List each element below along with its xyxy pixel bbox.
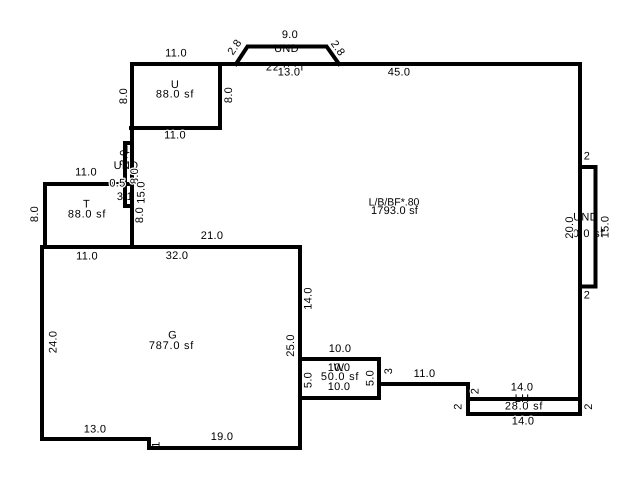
svg-text:24.0: 24.0 [48, 331, 60, 354]
svg-text:1: 1 [151, 441, 163, 447]
svg-text:2: 2 [583, 403, 595, 409]
svg-text:2: 2 [584, 290, 590, 302]
svg-text:8.0: 8.0 [29, 206, 41, 222]
main area outline L/B/BF*.80 with U room region [132, 64, 580, 399]
svg-text:21.0: 21.0 [201, 230, 224, 242]
svg-text:10.0: 10.0 [329, 343, 352, 355]
svg-text:88.0 sf: 88.0 sf [68, 209, 106, 221]
svg-text:9.0: 9.0 [282, 29, 298, 41]
svg-text:5.0: 5.0 [365, 370, 377, 386]
right UND rect 40sf [580, 167, 596, 287]
svg-text:13.0: 13.0 [278, 67, 301, 79]
svg-text:5.0: 5.0 [303, 372, 315, 388]
svg-text:11.0: 11.0 [76, 251, 98, 263]
narrow UND strip left of main wall [125, 143, 132, 206]
svg-text:13.0: 13.0 [84, 424, 107, 436]
svg-text:11.0: 11.0 [414, 368, 436, 380]
svg-text:11.0: 11.0 [165, 47, 187, 59]
svg-text:11.0: 11.0 [75, 167, 97, 179]
room W walls [300, 359, 379, 398]
svg-text:3.1: 3.1 [117, 191, 133, 203]
svg-text:14.0: 14.0 [303, 287, 315, 310]
room G outline [42, 247, 300, 448]
svg-text:8.0: 8.0 [134, 207, 146, 223]
svg-text:28.0 sf: 28.0 sf [505, 401, 543, 413]
svg-text:19.0: 19.0 [211, 431, 234, 443]
svg-text:14.0: 14.0 [512, 416, 535, 428]
svg-text:32.0: 32.0 [166, 250, 189, 262]
svg-text:11.0: 11.0 [164, 130, 186, 142]
svg-text:20.0: 20.0 [564, 216, 576, 239]
trapezoid UND porch top [236, 47, 339, 65]
svg-text:14.0: 14.0 [511, 382, 534, 394]
svg-text:88.0 sf: 88.0 sf [156, 89, 194, 101]
svg-text:15.0: 15.0 [136, 181, 148, 204]
svg-text:25.0: 25.0 [285, 334, 297, 357]
svg-text:1793.0 sf: 1793.0 sf [371, 205, 419, 217]
svg-text:2: 2 [584, 151, 590, 163]
bottom-right strip LH 28sf [468, 397, 580, 414]
svg-text:10.0: 10.0 [328, 381, 351, 393]
room U right and bottom walls [131, 64, 220, 128]
room T walls [45, 184, 132, 247]
svg-text:8.0: 8.0 [118, 88, 130, 104]
svg-text:3: 3 [383, 368, 395, 374]
svg-text:15.0: 15.0 [600, 216, 612, 239]
svg-text:0.5: 0.5 [109, 178, 125, 190]
svg-text:8.0: 8.0 [223, 87, 235, 103]
svg-text:2: 2 [470, 388, 482, 394]
svg-text:2: 2 [453, 403, 465, 409]
svg-text:787.0 sf: 787.0 sf [149, 340, 194, 352]
svg-text:45.0: 45.0 [388, 67, 411, 79]
svg-text:3.0: 3.0 [119, 149, 131, 165]
